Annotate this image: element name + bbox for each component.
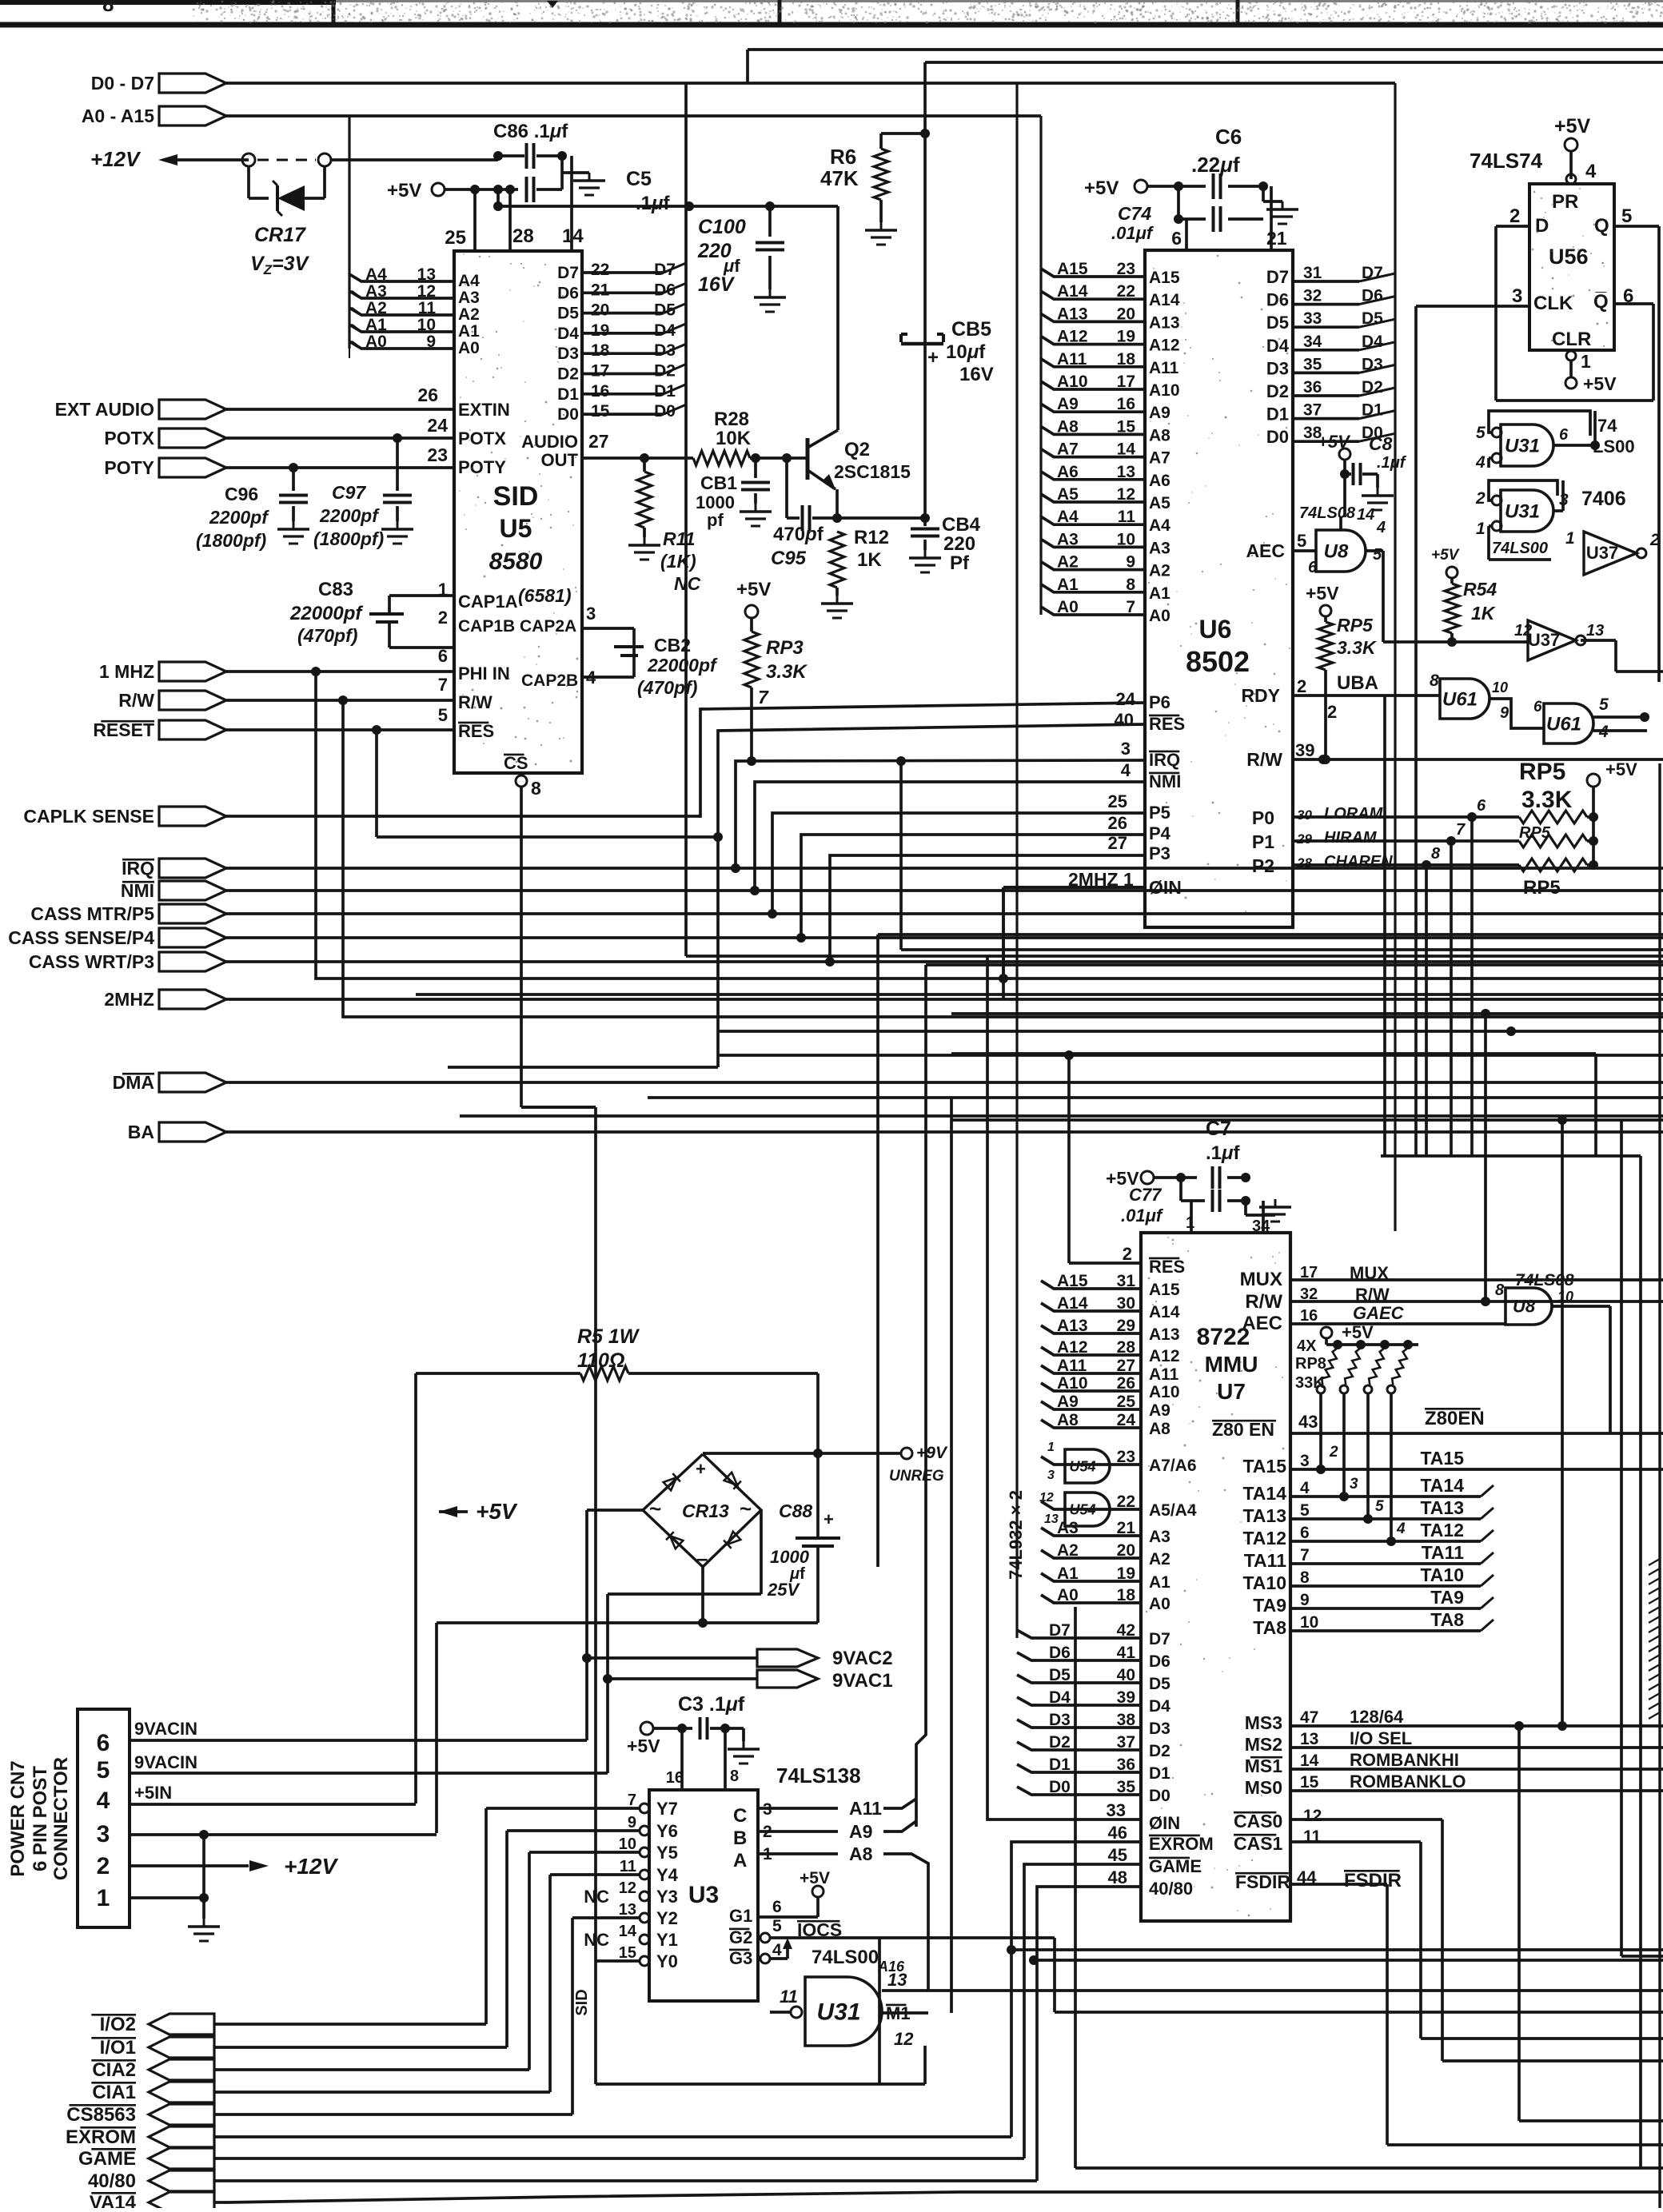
- svg-text:U8: U8: [1513, 1297, 1536, 1317]
- svg-text:35: 35: [1117, 1778, 1136, 1796]
- svg-text:A4: A4: [365, 265, 387, 284]
- svg-text:CAPLK SENSE: CAPLK SENSE: [23, 806, 154, 827]
- svg-text:AUDIO: AUDIO: [521, 432, 578, 452]
- svg-text:(1K): (1K): [660, 551, 696, 572]
- svg-text:35: 35: [1303, 355, 1322, 373]
- svg-text:Q̅: Q̅: [1593, 291, 1609, 313]
- svg-text:9VAC2: 9VAC2: [832, 1648, 893, 1669]
- svg-text:TA14: TA14: [1242, 1483, 1286, 1504]
- svg-text:D7: D7: [1266, 267, 1289, 287]
- svg-text:POTY: POTY: [458, 457, 506, 477]
- svg-text:1: 1: [1565, 529, 1575, 548]
- svg-text:D2: D2: [1049, 1733, 1071, 1752]
- svg-text:12: 12: [1514, 622, 1532, 640]
- svg-text:MS0: MS0: [1245, 1777, 1282, 1798]
- svg-text:5: 5: [1621, 205, 1632, 227]
- svg-text:23: 23: [1117, 260, 1135, 278]
- svg-text:R6: R6: [830, 145, 856, 169]
- svg-text:POWER CN7: POWER CN7: [7, 1760, 29, 1876]
- svg-text:U54: U54: [1069, 1501, 1095, 1517]
- svg-text:A11: A11: [1057, 1357, 1087, 1375]
- svg-text:U37: U37: [1528, 630, 1560, 650]
- svg-text:31: 31: [1303, 264, 1322, 282]
- svg-text:A0 - A15: A0 - A15: [82, 106, 154, 126]
- svg-text:24: 24: [1117, 1411, 1136, 1429]
- svg-text:A8: A8: [1149, 426, 1170, 444]
- svg-text:10: 10: [1492, 680, 1508, 695]
- svg-text:+5V: +5V: [800, 1869, 830, 1887]
- svg-text:A8: A8: [1149, 1420, 1170, 1438]
- svg-text:C8: C8: [1369, 433, 1393, 454]
- svg-text:P4: P4: [1149, 823, 1171, 843]
- svg-text:30: 30: [1117, 1294, 1135, 1313]
- svg-text:3: 3: [1350, 1476, 1358, 1493]
- svg-text:OUT: OUT: [541, 450, 579, 470]
- svg-text:NMI: NMI: [121, 880, 154, 901]
- svg-text:39: 39: [1117, 1688, 1135, 1707]
- svg-text:37: 37: [1117, 1733, 1135, 1752]
- svg-text:A8: A8: [1057, 1411, 1079, 1429]
- svg-text:D0: D0: [654, 402, 676, 420]
- svg-text:A12: A12: [1149, 337, 1180, 355]
- svg-text:14: 14: [1117, 440, 1136, 459]
- svg-text:9: 9: [628, 1814, 636, 1831]
- svg-text:FSDIR: FSDIR: [1344, 1870, 1402, 1891]
- svg-text:20: 20: [1117, 305, 1135, 323]
- svg-text:A9: A9: [1149, 1401, 1170, 1420]
- svg-text:Q: Q: [1594, 215, 1609, 237]
- svg-text:D4: D4: [1149, 1697, 1170, 1716]
- svg-text:2200pf: 2200pf: [209, 507, 269, 528]
- svg-text:74LS74: 74LS74: [1470, 149, 1543, 173]
- svg-text:C6: C6: [1215, 125, 1242, 149]
- svg-text:13: 13: [1586, 622, 1604, 640]
- svg-text:MUX: MUX: [1350, 1263, 1389, 1283]
- svg-text:2: 2: [1297, 676, 1306, 696]
- svg-text:6: 6: [1477, 797, 1486, 815]
- svg-text:37: 37: [1303, 401, 1322, 420]
- svg-text:15: 15: [591, 402, 610, 420]
- svg-text:128/64: 128/64: [1350, 1707, 1404, 1727]
- svg-text:21: 21: [1117, 1519, 1136, 1537]
- svg-text:42: 42: [1117, 1621, 1135, 1640]
- svg-text:A9: A9: [1057, 1393, 1079, 1411]
- svg-text:4: 4: [1300, 1479, 1310, 1497]
- svg-text:A7: A7: [1057, 440, 1079, 459]
- svg-text:22: 22: [1117, 282, 1135, 301]
- svg-text:28: 28: [1117, 1338, 1136, 1357]
- svg-text:40: 40: [1117, 1666, 1135, 1684]
- svg-text:36: 36: [1303, 378, 1322, 397]
- svg-text:Y5: Y5: [656, 1843, 678, 1863]
- svg-text:EXROM: EXROM: [1149, 1834, 1214, 1854]
- svg-text:14: 14: [562, 225, 584, 247]
- svg-text:A15: A15: [1057, 1272, 1088, 1290]
- svg-text:27: 27: [1117, 1357, 1135, 1375]
- svg-text:A0: A0: [458, 339, 480, 357]
- svg-text:D2: D2: [654, 362, 676, 381]
- svg-text:A3: A3: [1057, 1519, 1079, 1537]
- svg-text:MUX: MUX: [1240, 1269, 1282, 1290]
- svg-text:74LS00: 74LS00: [812, 1947, 879, 1968]
- svg-text:9: 9: [1300, 1591, 1310, 1609]
- svg-text:43: 43: [1298, 1412, 1318, 1432]
- svg-text:GAME: GAME: [78, 2148, 136, 2170]
- svg-text:U8: U8: [1324, 540, 1349, 562]
- svg-text:(1800pf): (1800pf): [313, 528, 384, 549]
- svg-text:POTX: POTX: [104, 428, 154, 448]
- svg-text:14: 14: [1357, 506, 1374, 524]
- svg-text:17: 17: [1300, 1264, 1318, 1281]
- svg-text:BA: BA: [128, 1122, 154, 1142]
- svg-text:DMA: DMA: [113, 1072, 154, 1093]
- svg-text:AEC: AEC: [1246, 540, 1285, 561]
- svg-text:1K: 1K: [857, 549, 882, 571]
- svg-text:16: 16: [666, 1769, 684, 1787]
- svg-text:16: 16: [1300, 1307, 1318, 1325]
- svg-text:16V: 16V: [698, 273, 736, 296]
- svg-text:+9V: +9V: [916, 1444, 948, 1462]
- svg-text:4: 4: [1475, 453, 1486, 472]
- svg-text:7: 7: [628, 1792, 636, 1809]
- svg-text:D3: D3: [1049, 1711, 1071, 1729]
- svg-text:A12: A12: [1057, 1338, 1088, 1357]
- svg-text:C77: C77: [1129, 1185, 1163, 1205]
- svg-text:9: 9: [426, 333, 436, 351]
- svg-text:TA10: TA10: [1242, 1572, 1286, 1593]
- svg-text:470pf: 470pf: [773, 524, 824, 545]
- svg-text:ØIN: ØIN: [1149, 877, 1182, 898]
- svg-text:UBA: UBA: [1337, 672, 1378, 694]
- svg-text:4: 4: [1396, 1521, 1406, 1537]
- svg-text:22: 22: [1117, 1493, 1135, 1511]
- svg-text:D0: D0: [1266, 427, 1289, 447]
- svg-text:GAME: GAME: [1149, 1856, 1202, 1876]
- svg-text:D6: D6: [654, 281, 676, 299]
- svg-text:D1: D1: [1149, 1764, 1170, 1783]
- svg-text:+5V: +5V: [627, 1736, 660, 1756]
- svg-text:74L932 × 2: 74L932 × 2: [1006, 1490, 1026, 1580]
- svg-text:~: ~: [649, 1497, 661, 1521]
- svg-text:5: 5: [1375, 1498, 1384, 1515]
- svg-text:I/O SEL: I/O SEL: [1350, 1728, 1412, 1748]
- svg-text:3: 3: [1047, 1469, 1055, 1482]
- svg-text:+5V: +5V: [1306, 583, 1339, 604]
- svg-text:+5V: +5V: [1554, 115, 1591, 138]
- svg-text:D4: D4: [557, 325, 579, 343]
- svg-text:29: 29: [1296, 831, 1312, 847]
- svg-text:220: 220: [943, 533, 975, 555]
- svg-text:19: 19: [591, 321, 609, 340]
- svg-text:A9: A9: [1149, 404, 1170, 422]
- svg-text:CASS SENSE/P4: CASS SENSE/P4: [8, 927, 154, 948]
- svg-text:UNREG: UNREG: [889, 1468, 944, 1485]
- svg-text:B: B: [733, 1827, 747, 1849]
- svg-text:A5: A5: [1149, 494, 1170, 512]
- svg-text:3.3K: 3.3K: [1521, 787, 1573, 813]
- svg-text:D7: D7: [1049, 1621, 1071, 1640]
- svg-text:RP8: RP8: [1295, 1355, 1326, 1373]
- svg-text:33: 33: [1107, 1800, 1126, 1820]
- svg-text:A0: A0: [1057, 1586, 1079, 1604]
- svg-text:11: 11: [418, 299, 437, 317]
- svg-text:+: +: [927, 347, 939, 369]
- svg-text:A10: A10: [1149, 1383, 1180, 1401]
- svg-text:6: 6: [97, 1730, 110, 1756]
- svg-text:D2: D2: [1266, 381, 1289, 401]
- svg-text:31: 31: [1117, 1272, 1136, 1290]
- svg-text:+12V: +12V: [90, 147, 142, 171]
- svg-text:3: 3: [1300, 1452, 1310, 1470]
- svg-text:P1: P1: [1252, 831, 1274, 852]
- svg-text:CASS MTR/P5: CASS MTR/P5: [30, 903, 154, 924]
- svg-text:16V: 16V: [959, 364, 994, 385]
- svg-text:28: 28: [512, 225, 534, 247]
- svg-text:24: 24: [427, 415, 448, 436]
- svg-text:D6: D6: [557, 284, 579, 302]
- svg-text:12: 12: [619, 1879, 636, 1897]
- svg-text:2: 2: [1329, 1444, 1338, 1461]
- svg-text:2: 2: [1649, 531, 1660, 549]
- svg-text:A15: A15: [1149, 269, 1180, 287]
- svg-text:20: 20: [1117, 1541, 1135, 1560]
- svg-text:R54: R54: [1463, 579, 1497, 600]
- svg-text:TA11: TA11: [1244, 1550, 1286, 1571]
- svg-text:19: 19: [1117, 1564, 1135, 1583]
- svg-text:.01μf: .01μf: [1121, 1206, 1164, 1226]
- svg-text:.22μf: .22μf: [1191, 153, 1240, 177]
- svg-text:34: 34: [1252, 1218, 1270, 1235]
- svg-text:A4: A4: [1057, 508, 1079, 526]
- svg-text:Y6: Y6: [656, 1821, 678, 1841]
- svg-text:3.3K: 3.3K: [1337, 637, 1377, 658]
- svg-text:R/W: R/W: [118, 690, 154, 711]
- svg-text:13: 13: [1300, 1730, 1318, 1748]
- svg-text:A15: A15: [1149, 1281, 1180, 1299]
- svg-text:CLK: CLK: [1533, 293, 1573, 314]
- svg-text:12: 12: [1039, 1491, 1054, 1505]
- svg-text:2: 2: [1123, 1244, 1132, 1264]
- svg-text:CIA1: CIA1: [92, 2082, 136, 2103]
- svg-text:+5V: +5V: [1431, 547, 1460, 564]
- svg-text:+5V: +5V: [1084, 177, 1119, 199]
- svg-text:9VACIN: 9VACIN: [134, 1719, 197, 1739]
- svg-text:TA8: TA8: [1253, 1617, 1286, 1638]
- svg-text:CB5: CB5: [951, 318, 991, 341]
- svg-text:A2: A2: [1149, 1550, 1170, 1568]
- svg-text:RP3: RP3: [766, 637, 804, 659]
- svg-text:2: 2: [438, 608, 448, 628]
- svg-text:18: 18: [591, 341, 610, 360]
- svg-text:20: 20: [591, 301, 609, 320]
- svg-text:1000: 1000: [770, 1547, 810, 1567]
- svg-text:D1: D1: [557, 385, 579, 404]
- svg-text:A5: A5: [1057, 485, 1079, 504]
- svg-text:+5V: +5V: [1605, 759, 1637, 779]
- svg-text:8580: 8580: [489, 548, 543, 575]
- svg-text:D5: D5: [1266, 313, 1289, 333]
- svg-text:1: 1: [1476, 520, 1486, 538]
- svg-text:U61: U61: [1546, 713, 1581, 735]
- svg-text:1K: 1K: [1471, 603, 1496, 624]
- svg-text:2: 2: [1475, 489, 1486, 508]
- svg-text:D0: D0: [1149, 1787, 1170, 1805]
- svg-text:6: 6: [1559, 426, 1569, 444]
- svg-text:A0: A0: [1057, 598, 1079, 616]
- svg-text:R/W: R/W: [1355, 1285, 1390, 1305]
- svg-text:1 MHZ: 1 MHZ: [99, 661, 154, 682]
- svg-text:ØIN: ØIN: [1149, 1813, 1180, 1833]
- svg-text:~: ~: [740, 1497, 752, 1521]
- svg-text:22000pf: 22000pf: [647, 655, 718, 676]
- svg-text:19: 19: [1117, 328, 1135, 346]
- svg-text:A12: A12: [1149, 1347, 1180, 1365]
- svg-text:C83: C83: [318, 579, 353, 600]
- svg-text:D3: D3: [557, 345, 579, 363]
- svg-text:40: 40: [1115, 710, 1134, 730]
- svg-text:(470pf): (470pf): [637, 677, 697, 698]
- svg-text:26: 26: [1108, 813, 1127, 833]
- svg-text:(470pf): (470pf): [297, 625, 357, 646]
- svg-text:16: 16: [591, 382, 609, 401]
- svg-text:D3: D3: [1149, 1720, 1170, 1738]
- svg-text:TA15: TA15: [1242, 1456, 1286, 1477]
- svg-text:8: 8: [1430, 672, 1439, 690]
- svg-text:RES: RES: [1149, 714, 1185, 734]
- svg-text:12: 12: [417, 282, 436, 301]
- svg-text:C95: C95: [771, 548, 807, 569]
- svg-text:23: 23: [1117, 1448, 1135, 1466]
- svg-text:pf: pf: [707, 510, 724, 530]
- svg-text:C97: C97: [332, 482, 366, 503]
- svg-text:29: 29: [1117, 1317, 1135, 1335]
- svg-text:8502: 8502: [1186, 645, 1250, 678]
- svg-text:A10: A10: [1057, 373, 1088, 391]
- svg-text:C3 .1μf: C3 .1μf: [678, 1693, 745, 1716]
- svg-text:TA11: TA11: [1422, 1542, 1464, 1563]
- svg-text:R28: R28: [714, 409, 749, 430]
- svg-text:7: 7: [438, 675, 448, 695]
- svg-text:A13: A13: [1149, 1325, 1180, 1344]
- svg-text:D5: D5: [557, 305, 579, 323]
- svg-text:CAP1B CAP2A: CAP1B CAP2A: [458, 617, 576, 636]
- svg-text:11: 11: [780, 1987, 798, 2007]
- svg-text:U31: U31: [816, 1999, 860, 2026]
- svg-text:4: 4: [1585, 161, 1597, 182]
- svg-text:11: 11: [1118, 508, 1136, 526]
- svg-text:7: 7: [1300, 1546, 1310, 1564]
- svg-text:TA9: TA9: [1253, 1595, 1286, 1616]
- svg-text:5: 5: [1300, 1501, 1310, 1520]
- svg-text:A2: A2: [458, 305, 480, 324]
- svg-text:CS: CS: [504, 753, 528, 773]
- svg-text:A5/A4: A5/A4: [1149, 1501, 1197, 1520]
- svg-text:U31: U31: [1505, 500, 1540, 522]
- svg-text:CONNECTOR: CONNECTOR: [50, 1757, 72, 1880]
- svg-text:A7/A6: A7/A6: [1149, 1457, 1197, 1475]
- svg-text:Z80 EN: Z80 EN: [1212, 1419, 1274, 1440]
- svg-text:6: 6: [1308, 559, 1318, 576]
- svg-text:U56: U56: [1549, 245, 1589, 269]
- svg-text:8: 8: [1431, 845, 1441, 863]
- svg-text:2: 2: [1327, 702, 1337, 722]
- svg-text:A2: A2: [1149, 562, 1170, 580]
- svg-text:3: 3: [97, 1821, 110, 1847]
- svg-text:A7: A7: [1149, 449, 1170, 468]
- svg-text:TA14: TA14: [1420, 1475, 1464, 1496]
- svg-text:MS3: MS3: [1245, 1712, 1282, 1733]
- svg-text:6: 6: [772, 1898, 782, 1916]
- svg-text:D5: D5: [1149, 1675, 1170, 1693]
- svg-text:D5: D5: [1049, 1666, 1071, 1684]
- svg-text:NC: NC: [584, 1887, 609, 1907]
- svg-text:ROMBANKHI: ROMBANKHI: [1350, 1750, 1459, 1770]
- svg-text:G2: G2: [729, 1927, 752, 1947]
- svg-text:3: 3: [1121, 739, 1131, 759]
- svg-text:5: 5: [1476, 424, 1486, 442]
- svg-text:R11: R11: [663, 528, 696, 549]
- svg-text:CAP1A: CAP1A: [458, 592, 518, 612]
- svg-text:RES: RES: [458, 721, 494, 741]
- svg-text:A9: A9: [849, 1821, 872, 1842]
- svg-text:A11: A11: [1057, 350, 1087, 369]
- svg-text:VA14: VA14: [90, 2192, 137, 2208]
- svg-text:Pf: Pf: [950, 552, 970, 574]
- svg-text:C74: C74: [1118, 203, 1151, 224]
- svg-text:HIRAM: HIRAM: [1324, 829, 1378, 847]
- svg-text:CAS1: CAS1: [1234, 1833, 1283, 1854]
- svg-text:10: 10: [1300, 1613, 1318, 1632]
- svg-text:A2: A2: [365, 299, 387, 317]
- svg-text:4: 4: [97, 1788, 110, 1814]
- svg-text:18: 18: [1117, 1586, 1136, 1604]
- svg-text:P6: P6: [1149, 692, 1170, 712]
- svg-text:A14: A14: [1149, 291, 1180, 309]
- svg-text:13: 13: [619, 1901, 636, 1919]
- svg-text:P0: P0: [1252, 807, 1274, 828]
- svg-text:21: 21: [1266, 228, 1287, 249]
- svg-text:A10: A10: [1149, 381, 1180, 400]
- svg-text:A14: A14: [1149, 1303, 1180, 1321]
- svg-text:7: 7: [1456, 821, 1466, 839]
- svg-text:RP5: RP5: [1523, 877, 1561, 899]
- svg-text:26: 26: [417, 385, 438, 405]
- svg-text:9VAC1: 9VAC1: [832, 1670, 893, 1692]
- svg-text:IRQ: IRQ: [1149, 750, 1180, 770]
- svg-text:A12: A12: [1057, 328, 1088, 346]
- svg-text:8: 8: [1126, 576, 1135, 594]
- svg-text:+: +: [824, 1509, 834, 1529]
- svg-text:A0: A0: [1149, 1595, 1170, 1613]
- svg-text:40/80: 40/80: [88, 2170, 136, 2192]
- svg-text:7406: 7406: [1581, 488, 1626, 510]
- svg-text:4: 4: [1121, 760, 1131, 780]
- svg-text:A0: A0: [1149, 607, 1170, 625]
- svg-text:13: 13: [417, 265, 436, 284]
- svg-text:A3: A3: [1057, 530, 1079, 548]
- svg-text:A9: A9: [1057, 395, 1079, 413]
- svg-text:5: 5: [1373, 546, 1382, 564]
- svg-text:4: 4: [1376, 519, 1386, 536]
- svg-text:D0 - D7: D0 - D7: [91, 73, 154, 94]
- svg-text:5: 5: [772, 1917, 782, 1935]
- svg-text:74LS08: 74LS08: [1299, 504, 1356, 522]
- svg-text:32: 32: [1303, 287, 1322, 305]
- svg-text:CR13: CR13: [682, 1501, 729, 1521]
- svg-text:2MHZ: 2MHZ: [104, 989, 154, 1010]
- svg-text:45: 45: [1108, 1845, 1127, 1865]
- svg-text:47: 47: [1300, 1708, 1318, 1727]
